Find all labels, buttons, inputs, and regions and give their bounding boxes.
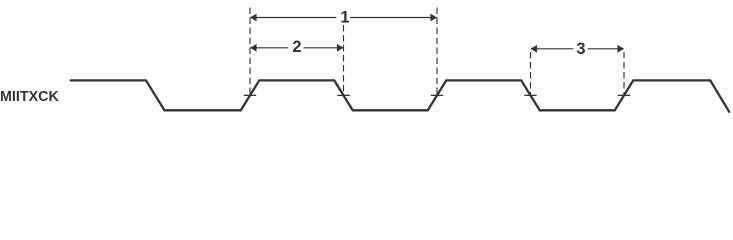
dimension 2 left arrowhead (250, 44, 257, 52)
node E dashed reference line, third rising edge (x=624) (623, 52, 625, 94)
dimension 3 left arrowhead (531, 45, 538, 53)
dimension 1 line right segment (350, 17, 437, 19)
dimension 1 right arrowhead (430, 14, 437, 22)
dimension 2 line right segment (304, 47, 343, 49)
transition midpoint tick at node B (337, 94, 349, 96)
node D dashed reference line, falling edge (x=530.5) (530, 52, 532, 94)
dimension 2 right arrowhead (337, 44, 344, 52)
dimension 3 (low time) line left segment (531, 48, 573, 50)
dimension 2 (high time) line left segment (250, 47, 288, 49)
dimension 1 left arrowhead (250, 14, 257, 22)
wire MIITXCK clock waveform trace (71, 80, 730, 111)
node C dashed reference line, second rising edge (x=437) (436, 8, 438, 95)
svg-text:3: 3 (576, 40, 585, 58)
transition midpoint tick at node C (431, 94, 443, 96)
transition midpoint tick at node E (618, 94, 630, 96)
transition midpoint tick at node D (524, 94, 536, 96)
svg-text:MIITXCK: MIITXCK (0, 89, 59, 105)
node A dashed reference line, first rising edge (x=250) (249, 8, 251, 95)
node B dashed reference line, falling edge (x=343.5) (343, 25, 345, 94)
dimension 1 (clock period) line left segment (250, 17, 336, 19)
dimension 3 line right segment (588, 48, 624, 50)
dimension 3 right arrowhead (617, 45, 624, 53)
svg-text:1: 1 (340, 9, 349, 27)
transition midpoint tick at node A (244, 94, 256, 96)
svg-text:2: 2 (292, 38, 301, 56)
